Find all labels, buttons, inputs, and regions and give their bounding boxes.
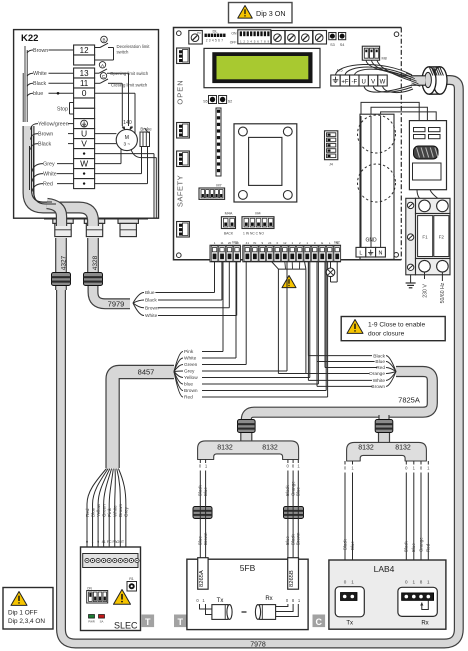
cable stub into gland xyxy=(406,73,425,86)
7979 encoder wires to M3 xyxy=(133,262,237,320)
SLEC LEDs PWR SA xyxy=(88,615,104,624)
brake xyxy=(140,127,152,147)
svg-text:GND: GND xyxy=(365,238,377,244)
svg-text:1: 1 xyxy=(351,580,354,585)
svg-text:12: 12 xyxy=(80,46,89,55)
LAB4 box xyxy=(329,560,446,629)
svg-text:T: T xyxy=(145,617,151,627)
svg-text:140: 140 xyxy=(123,120,132,126)
svg-text:23: 23 xyxy=(235,241,239,245)
svg-text:8: 8 xyxy=(420,580,423,585)
svg-text:Red: Red xyxy=(426,543,431,552)
warning triangle below terminal strip xyxy=(282,276,296,288)
svg-text:3: 3 xyxy=(209,38,211,42)
svg-text:8265A: 8265A xyxy=(199,570,205,587)
LAB4 wires to Rx xyxy=(404,461,431,587)
5FB wires left pair (8265A) xyxy=(198,460,208,558)
mains wires down from fuse bottom xyxy=(425,272,443,281)
svg-text:Brown: Brown xyxy=(184,388,198,394)
cable gland 4328 under K22 xyxy=(84,213,104,236)
svg-text:5FB: 5FB xyxy=(240,563,256,573)
svg-text:PWR: PWR xyxy=(88,620,95,624)
svg-text:U: U xyxy=(81,128,87,138)
svg-text:M4: M4 xyxy=(255,212,260,216)
cable 7825A tube (from fan, down and left with branches) xyxy=(246,372,432,425)
potentiometers P2 P1 P4 P5 xyxy=(271,31,326,45)
left edge connector blocks xyxy=(177,48,190,237)
7825A branch stem to LAB4 8132 bridge xyxy=(378,415,389,424)
svg-text:3 ~: 3 ~ xyxy=(124,142,131,147)
svg-text:8132: 8132 xyxy=(358,444,374,451)
svg-text:230 V: 230 V xyxy=(423,284,429,298)
svg-text:S3: S3 xyxy=(330,43,335,47)
svg-text:P3: P3 xyxy=(197,31,201,35)
spare cable gland under K22 xyxy=(118,213,138,236)
SLEC warning triangle xyxy=(114,590,131,605)
svg-text:0: 0 xyxy=(344,580,347,585)
svg-text:Blue: Blue xyxy=(203,487,208,496)
cable 7978 conduit loop (left side, bottom, right side up to motor gland) xyxy=(61,80,459,644)
cable gland 4327 under K22 xyxy=(53,213,73,236)
svg-text:Black: Black xyxy=(342,538,347,550)
LAB4 Tx terminal labels xyxy=(344,580,355,585)
svg-text:door closure: door closure xyxy=(368,331,405,338)
svg-text:Brown: Brown xyxy=(203,532,208,545)
svg-text:Brown: Brown xyxy=(118,504,123,517)
svg-text:5: 5 xyxy=(215,38,217,42)
SLEC receiver box xyxy=(81,547,141,631)
svg-text:J4: J4 xyxy=(329,163,333,167)
svg-text:K22: K22 xyxy=(21,33,38,44)
wire channel (bus) from M2 to Orange wire xyxy=(272,262,306,374)
motor and brake wiring xyxy=(95,93,157,217)
8457 wires to terminal strip xyxy=(174,262,328,401)
svg-text:0: 0 xyxy=(82,88,87,98)
svg-text:0: 0 xyxy=(86,540,88,544)
svg-text:Tx: Tx xyxy=(346,621,353,627)
buttons S5 S2 xyxy=(203,96,232,104)
svg-text:Black: Black xyxy=(198,484,203,496)
LAB4 bridge stem xyxy=(379,430,390,443)
svg-text:8132: 8132 xyxy=(262,444,278,451)
K22 junction box xyxy=(14,30,159,219)
svg-text:11: 11 xyxy=(80,79,89,88)
svg-text:Grey: Grey xyxy=(43,161,55,167)
svg-text:Green: Green xyxy=(101,504,106,517)
svg-text:Black: Black xyxy=(404,540,409,552)
7825A wires from M2 xyxy=(306,262,396,391)
svg-text:W: W xyxy=(380,80,386,86)
K22 wire bundle into tube xyxy=(23,46,56,204)
svg-text:Blue: Blue xyxy=(411,543,416,552)
svg-text:Blue: Blue xyxy=(350,541,355,550)
svg-text:Red: Red xyxy=(376,365,385,371)
earth symbol below fuse block xyxy=(406,275,416,288)
svg-text:4328: 4328 xyxy=(92,255,99,270)
svg-text:6: 6 xyxy=(218,38,220,42)
svg-text:E: E xyxy=(321,241,323,245)
wires switch block to fuse terminals xyxy=(417,190,441,201)
svg-text:M7: M7 xyxy=(216,184,221,188)
svg-text:Black: Black xyxy=(33,81,46,87)
svg-text:Yellow: Yellow xyxy=(96,503,101,517)
svg-text:4: 4 xyxy=(212,38,214,42)
svg-text:Brown: Brown xyxy=(145,306,159,312)
svg-text:FC: FC xyxy=(107,540,112,544)
svg-text:Blue: Blue xyxy=(198,536,203,545)
svg-text:R1: R1 xyxy=(129,577,134,581)
wires transformer primary to power block xyxy=(361,102,438,123)
svg-text:White: White xyxy=(33,71,47,77)
svg-text:blue: blue xyxy=(33,91,43,97)
svg-text:Dip 1 OFF: Dip 1 OFF xyxy=(8,610,38,617)
K22 terminal block (12,13,11,0,earth,U,V,W) xyxy=(74,45,95,189)
terminals L earth N xyxy=(356,247,385,257)
svg-text:DL: DL xyxy=(212,29,218,34)
svg-text:White: White xyxy=(184,356,197,362)
svg-text:White: White xyxy=(113,505,118,517)
svg-text:Orange: Orange xyxy=(369,371,385,377)
svg-text:Black: Black xyxy=(145,298,157,304)
svg-text:13: 13 xyxy=(80,69,89,78)
svg-text:8265B: 8265B xyxy=(289,570,295,587)
svg-text:4327: 4327 xyxy=(61,255,68,270)
5FB Rx photocell xyxy=(242,604,299,619)
svg-text:Blue: Blue xyxy=(145,290,155,296)
5FB wires right trio (8265B) xyxy=(285,460,300,558)
svg-text:7978: 7978 xyxy=(250,641,266,648)
svg-text:V: V xyxy=(371,80,375,86)
ferrite bead on 4328 xyxy=(84,273,103,286)
svg-text:IN: IN xyxy=(253,241,256,245)
svg-text:C: C xyxy=(316,617,323,627)
svg-text:7825A: 7825A xyxy=(398,396,420,405)
ferrite bead on 8265B wires xyxy=(284,507,304,519)
svg-text:L: L xyxy=(359,251,362,257)
svg-text:Red: Red xyxy=(85,508,90,517)
svg-text:Tx: Tx xyxy=(217,598,224,604)
svg-text:Brown: Brown xyxy=(33,48,48,54)
5FB terminal designators and Tx Rx labels xyxy=(196,596,301,604)
cable 7979 tube elbow to fan xyxy=(93,282,130,304)
motor cable gland (conduit end) xyxy=(422,67,447,95)
LED bar DL xyxy=(205,29,226,43)
transformer xyxy=(358,114,396,259)
svg-text:M4A: M4A xyxy=(225,212,233,216)
svg-text:Orange: Orange xyxy=(418,537,423,552)
svg-text:M: M xyxy=(125,135,129,141)
svg-text:OUT: OUT xyxy=(117,540,125,544)
svg-text:Yellow/green: Yellow/green xyxy=(38,121,69,127)
svg-text:11: 11 xyxy=(220,241,223,245)
LCD display xyxy=(204,48,320,87)
board mounting holes xyxy=(177,31,399,258)
svg-text:switch: switch xyxy=(117,49,130,54)
main control board xyxy=(174,28,402,260)
svg-text:Black: Black xyxy=(373,353,385,359)
connector M8 xyxy=(362,46,386,60)
svg-text:A: A xyxy=(101,63,104,68)
opening limit switch (circle A) xyxy=(95,62,149,76)
svg-text:ON: ON xyxy=(87,587,92,591)
svg-text:41: 41 xyxy=(102,540,106,544)
SLEC potentiometer R1 xyxy=(127,577,137,591)
svg-text:Pink: Pink xyxy=(184,349,194,355)
svg-text:Pink: Pink xyxy=(107,507,112,517)
svg-text:8132: 8132 xyxy=(395,444,411,451)
stop contact bracket xyxy=(57,103,74,115)
gland on LAB4 8132 stem xyxy=(375,420,393,433)
svg-text:Opening limit switch: Opening limit switch xyxy=(110,71,149,76)
svg-text:Grey: Grey xyxy=(184,369,195,375)
svg-text:SAFETY: SAFETY xyxy=(176,175,185,207)
cable 8457 tube (to SLEC) xyxy=(113,372,174,468)
buttons S3 S4 xyxy=(329,33,346,47)
svg-text:Red: Red xyxy=(184,395,193,401)
switch block M4 xyxy=(242,212,274,236)
junction dot on blue wire xyxy=(57,92,60,95)
relay/transformer mount square xyxy=(234,124,297,202)
LAB4 Tx module xyxy=(335,587,364,627)
svg-text:Black: Black xyxy=(38,141,51,147)
svg-text:SA: SA xyxy=(100,620,104,624)
SLEC DIP switches xyxy=(87,587,108,604)
8132 double bridge tube for LAB4 xyxy=(347,442,427,461)
closing limit switch (circle C) xyxy=(95,73,148,88)
svg-text:Green: Green xyxy=(184,362,198,368)
svg-text:1-9 Close to enable: 1-9 Close to enable xyxy=(368,322,426,329)
SLEC terminal designators 0 1 9 41 FC FA OUT xyxy=(86,540,125,544)
5FB bridge stem xyxy=(241,430,252,442)
svg-text:20: 20 xyxy=(228,241,232,245)
deceleration limit switch (circle B) xyxy=(95,36,151,60)
warning box 1-9 Close to enable door closure xyxy=(341,317,445,341)
5FB photocell box xyxy=(187,559,308,629)
svg-text:F2: F2 xyxy=(439,235,445,240)
LAB4 wires to Tx xyxy=(342,461,355,587)
8265B interface xyxy=(288,558,299,590)
svg-text:Brown: Brown xyxy=(296,532,301,545)
terminal numbers xyxy=(214,241,339,245)
svg-text:1: 1 xyxy=(413,580,416,585)
svg-text:1: 1 xyxy=(427,580,430,585)
svg-text:7: 7 xyxy=(221,38,223,42)
svg-text:S4: S4 xyxy=(340,43,345,47)
svg-text:Stop: Stop xyxy=(57,107,68,113)
svg-text:T: T xyxy=(178,617,184,627)
svg-text:2: 2 xyxy=(206,38,208,42)
svg-text:Dip 2,3,4 ON: Dip 2,3,4 ON xyxy=(8,618,45,625)
svg-text:Grey: Grey xyxy=(124,506,129,517)
svg-text:LAB4: LAB4 xyxy=(374,564,395,574)
svg-text:W: W xyxy=(80,158,88,168)
svg-text:Rx: Rx xyxy=(265,596,272,602)
courtesy lamp symbol xyxy=(326,262,337,283)
svg-text:Blue: Blue xyxy=(296,487,301,496)
wires M5/M8 to motor gland xyxy=(336,60,414,92)
svg-text:8457: 8457 xyxy=(138,368,155,377)
svg-text:White: White xyxy=(43,171,57,177)
svg-text:OFF: OFF xyxy=(230,41,237,45)
terminal strip M3 (encoder, 4 terminals) xyxy=(210,239,240,261)
tag C (5FB) xyxy=(313,615,326,628)
svg-text:Brown: Brown xyxy=(38,131,53,137)
tag T (5FB) xyxy=(174,615,187,628)
svg-text:9: 9 xyxy=(97,540,99,544)
potentiometer P3 xyxy=(189,31,203,45)
SLEC wire fan from 8457 cable xyxy=(85,469,129,559)
8132 double bridge tube for 5FB xyxy=(198,441,299,460)
switch block M4A xyxy=(221,212,235,236)
small tube branch into gland 4327 xyxy=(47,204,62,227)
8265A interface xyxy=(198,558,208,590)
svg-text:8132: 8132 xyxy=(217,444,233,451)
svg-text:Rx: Rx xyxy=(421,621,428,627)
svg-text:U: U xyxy=(362,80,366,86)
svg-text:24: 24 xyxy=(268,241,272,245)
svg-text:50/60 Hz: 50/60 Hz xyxy=(440,282,446,303)
svg-text:Closing limit switch: Closing limit switch xyxy=(111,83,148,88)
tag T (SLEC) xyxy=(142,615,155,628)
svg-text:Brown: Brown xyxy=(371,384,385,390)
svg-text:B: B xyxy=(102,38,105,43)
svg-text:blue: blue xyxy=(184,382,193,388)
mains switch block xyxy=(409,121,446,190)
svg-text:+F: +F xyxy=(341,80,349,86)
svg-text:N: N xyxy=(379,251,383,257)
svg-text:N: N xyxy=(336,241,338,245)
svg-text:Blue: Blue xyxy=(375,359,385,365)
LAB4 Rx terminal labels xyxy=(405,580,430,585)
svg-text:1: 1 xyxy=(92,540,94,544)
svg-text:1 IN NC C NO: 1 IN NC C NO xyxy=(243,231,264,235)
terminal strip M2 (13 terminals) xyxy=(243,239,341,261)
motor M 3~ xyxy=(116,129,137,150)
cable 4328 tube below gland xyxy=(87,238,99,276)
DIP switch block (9 way) xyxy=(230,30,271,45)
ferrite bead on 4327 xyxy=(52,273,71,286)
svg-text:41: 41 xyxy=(246,241,250,245)
svg-text:Blue: Blue xyxy=(90,507,95,517)
svg-text:Yellow: Yellow xyxy=(184,375,198,381)
DIP block M7 xyxy=(199,184,225,200)
K22 wire labels (motor cable colours) xyxy=(27,48,74,192)
svg-text:SLEC: SLEC xyxy=(114,621,138,631)
ferrite bead on 8265A wires xyxy=(193,507,212,519)
svg-text:F1: F1 xyxy=(422,235,428,240)
LAB4 Rx module xyxy=(398,587,437,626)
svg-text:OPEN: OPEN xyxy=(176,79,185,104)
svg-text:S5: S5 xyxy=(203,100,208,104)
mounting plate line through glands xyxy=(44,218,148,220)
svg-text:12: 12 xyxy=(283,241,287,245)
svg-text:Dip 3 ON: Dip 3 ON xyxy=(256,9,286,18)
svg-text:M8: M8 xyxy=(382,57,387,61)
capacitor 140 xyxy=(122,120,133,129)
K22 internal motor-cable tube into gland 4328 xyxy=(29,126,94,226)
svg-text:ON: ON xyxy=(231,32,237,36)
5FB Tx photocell xyxy=(200,604,233,619)
terminal strip M5 (earth,+F,-F,U,V,W) xyxy=(331,75,387,86)
warning box Dip 1 OFF / Dip 2,3,4 ON xyxy=(3,588,53,630)
warning box Dip 3 ON xyxy=(229,3,293,23)
svg-text:7979: 7979 xyxy=(108,300,125,309)
connector J4 xyxy=(325,131,338,167)
svg-text:White: White xyxy=(373,378,386,384)
pin strip J2 xyxy=(204,108,221,192)
svg-text:0: 0 xyxy=(405,580,408,585)
svg-text:BACK: BACK xyxy=(224,231,234,235)
svg-text:Red: Red xyxy=(43,181,53,187)
svg-text:-F: -F xyxy=(351,80,357,86)
svg-text:White: White xyxy=(145,313,158,319)
cable 4327 tube below gland down left side (joins 7978 loop) xyxy=(55,238,67,290)
gland on 5FB 8132 stem xyxy=(238,420,256,433)
svg-text:V: V xyxy=(81,138,87,148)
svg-text:S2: S2 xyxy=(228,100,233,104)
fuse holder F1 F2 xyxy=(406,198,450,274)
svg-text:Deceleration limit: Deceleration limit xyxy=(117,44,151,49)
switch wires down to capacitor node xyxy=(122,73,128,126)
